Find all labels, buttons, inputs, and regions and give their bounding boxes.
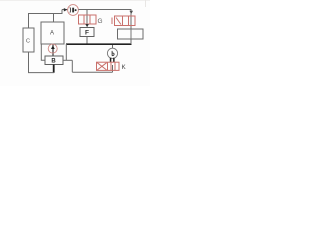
wire circle to right corner: [78, 9, 131, 11]
bottom wire to K: [72, 71, 112, 73]
arrow right on top wire: [64, 8, 68, 12]
svg-text:G: G: [98, 18, 103, 25]
wire down right of B: [71, 60, 73, 72]
wire top bus into A: [53, 14, 55, 22]
component symbol inside top circle: [69, 7, 72, 12]
arrow inside red circle: [51, 45, 55, 49]
red annotation box G: [79, 15, 97, 24]
wire up from bottom into K assembly: [112, 65, 114, 72]
glyph inside meter circle: [112, 51, 114, 56]
meter circle: [107, 48, 117, 58]
wire C top to top bus corner: [28, 14, 30, 29]
wire B right: [63, 59, 72, 61]
wire into top circle: [62, 9, 68, 11]
svg-text:K: K: [122, 65, 126, 71]
block F: [80, 28, 94, 37]
red annotation box top-right: [112, 16, 135, 26]
wire A bottom to B top: [52, 44, 54, 56]
wire bus down to meter circle: [112, 45, 114, 49]
svg-text:F: F: [85, 30, 89, 37]
faint top edge artifact: [0, 0, 150, 1]
block C: [23, 28, 34, 52]
block right empty: [118, 29, 144, 39]
annotation circle (red) on top wire: [68, 5, 79, 16]
arrow down into F: [85, 24, 89, 27]
wire A bottom-left down to B left: [41, 44, 45, 60]
red annotation circle below A: [48, 44, 57, 53]
wire bus left end down: [65, 44, 67, 60]
switch contacts (plug key): [110, 58, 112, 63]
wire through block B: [52, 56, 54, 65]
wire empty block to bus: [130, 39, 132, 44]
wire top horizontal bus left part: [28, 13, 62, 15]
thick bus wire: [66, 43, 132, 45]
svg-text:C: C: [26, 38, 30, 44]
wire junction down from top wire through red box G: [86, 10, 88, 24]
arrow down at top-right corner: [130, 11, 133, 15]
B bottom stub thick: [53, 65, 55, 73]
faint right-top artifact: [145, 0, 146, 7]
svg-text:A: A: [50, 30, 54, 36]
wire F to bus: [86, 37, 88, 45]
red annotation box K with X and bars: [97, 62, 120, 70]
block A: [41, 22, 64, 44]
wire C bottom loop to B stub: [29, 52, 55, 73]
wire jog up at x62: [61, 10, 63, 15]
block B: [45, 56, 63, 65]
svg-text:B: B: [51, 59, 56, 65]
wire through empty block: [130, 29, 132, 39]
wire down through right red box to empty block: [130, 10, 132, 29]
